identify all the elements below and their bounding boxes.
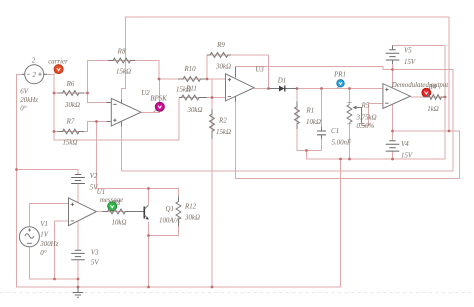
probe carrier <box>48 58 68 73</box>
svg-text:PR1: PR1 <box>333 71 346 78</box>
svg-text:15V: 15V <box>401 153 413 160</box>
svg-text:3.75kΩ: 3.75kΩ <box>356 115 377 122</box>
svg-text:D1: D1 <box>277 77 286 84</box>
probe PR1 <box>333 71 346 88</box>
svg-text:R11: R11 <box>185 85 197 92</box>
svg-text:R5: R5 <box>361 103 370 110</box>
svg-text:V1: V1 <box>40 221 48 228</box>
svg-text:15kΩ: 15kΩ <box>116 69 131 76</box>
svg-text:R6: R6 <box>66 81 75 88</box>
resistor R3 <box>103 200 131 227</box>
wire R7 row <box>54 122 111 132</box>
svg-text:V3: V3 <box>91 249 99 256</box>
wire R6 to U2 inverting input <box>88 93 112 103</box>
wire pot top lead <box>349 89 351 105</box>
svg-text:30kΩ: 30kΩ <box>187 107 203 114</box>
wire comparator output row <box>411 96 446 98</box>
svg-text:V4: V4 <box>401 141 409 148</box>
svg-text:0°: 0° <box>40 250 46 257</box>
svg-text:R12: R12 <box>184 203 197 210</box>
svg-text:1kΩ: 1kΩ <box>427 106 439 113</box>
potentiometer R5 <box>347 103 377 130</box>
resistor R1 <box>295 102 321 130</box>
wire U1 output row to Q1 base <box>97 211 140 213</box>
wire top rail right corner down <box>448 17 450 131</box>
resistor R8 <box>108 49 135 76</box>
wire minus15 row V4 to right margin <box>236 97 460 179</box>
wire R8 feedback <box>88 61 160 94</box>
wire U1 minus to lower rail <box>55 221 69 279</box>
AC source carrier <box>20 58 47 113</box>
page border dashed bottom <box>0 292 474 294</box>
wire carrier node vertical <box>44 75 179 141</box>
svg-text:carrier: carrier <box>48 58 68 65</box>
wire V5 top lead to right margin <box>393 46 446 160</box>
svg-text:R2: R2 <box>218 117 227 124</box>
op-amp U1 <box>69 189 106 226</box>
probe BPSK <box>150 96 167 113</box>
resistor R7 <box>58 118 85 146</box>
wire V1 bottom to lower rail <box>30 247 79 279</box>
svg-text:2: 2 <box>32 58 36 65</box>
wire U1 bottom pin to V3 <box>77 222 79 251</box>
svg-text:0°: 0° <box>20 105 26 112</box>
wire R11 row to U3 minus <box>179 97 226 99</box>
svg-text:V5: V5 <box>404 47 412 54</box>
resistor R11 <box>179 85 207 113</box>
probe Demodulated output <box>391 82 450 97</box>
battery V2 <box>71 173 98 191</box>
transistor Q1 <box>130 205 180 224</box>
capacitor C1 <box>317 127 352 147</box>
resistor R9 <box>207 42 231 70</box>
svg-text:V2: V2 <box>90 173 98 180</box>
wire common rail to V2 top <box>17 170 79 175</box>
svg-text:U3: U3 <box>255 66 264 73</box>
wire U2 output to feedback node <box>141 79 212 113</box>
resistor R12 <box>176 197 200 227</box>
svg-text:C1: C1 <box>331 128 339 135</box>
svg-text:20kHz: 20kHz <box>20 97 38 104</box>
wire U3 plus input <box>207 78 226 80</box>
resistor R10 <box>176 66 205 93</box>
op-amp comparator U4 <box>383 84 410 109</box>
svg-text:15V: 15V <box>404 59 416 66</box>
svg-text:5.00nF: 5.00nF <box>332 139 353 146</box>
svg-text:0.50%: 0.50% <box>357 123 375 130</box>
wire R2 down to ground rail <box>211 98 213 288</box>
svg-text:R8: R8 <box>117 49 126 56</box>
svg-text:R3: R3 <box>112 200 121 207</box>
wire left border net (carrier minus / common) <box>17 75 341 288</box>
wire pot bottom lead <box>349 123 351 160</box>
svg-text:R7: R7 <box>66 118 75 125</box>
wire U3 output main row <box>254 88 383 90</box>
battery V4 <box>386 141 413 160</box>
svg-text:10kΩ: 10kΩ <box>112 220 127 227</box>
svg-text:100A/A: 100A/A <box>159 217 180 224</box>
svg-text:30kΩ: 30kΩ <box>215 63 231 70</box>
wire R1 branch <box>297 89 322 151</box>
wire V1 plus to U1 plus <box>30 204 69 228</box>
svg-text:5V: 5V <box>90 184 98 191</box>
wire U2 top supply from top rail <box>122 17 450 103</box>
wire R9 feedback <box>207 55 269 89</box>
svg-text:R10: R10 <box>183 66 196 73</box>
resistor R2 <box>210 109 231 139</box>
svg-text:30kΩ: 30kΩ <box>64 102 80 109</box>
svg-text:300Hz: 300Hz <box>39 241 58 248</box>
svg-text:5V: 5V <box>91 260 99 267</box>
svg-text:Demodulated output: Demodulated output <box>391 82 450 89</box>
svg-text:30kΩ: 30kΩ <box>184 215 200 222</box>
wire pot wiper to comparator minus <box>362 104 384 126</box>
wire node plus to Q1 collector rail <box>97 122 179 202</box>
svg-text:R9: R9 <box>216 42 225 49</box>
svg-text:1V: 1V <box>40 232 48 239</box>
wire R10-R11 tie <box>211 79 213 98</box>
resistor R4 1k load <box>424 95 444 113</box>
wire comparator V+ to V5 <box>392 60 394 88</box>
wire plus15 row U3 to V5 <box>122 67 454 172</box>
op-amp U2 <box>107 90 151 127</box>
wire comparator Vminus to V4 <box>392 105 394 160</box>
svg-text:15kΩ: 15kΩ <box>63 139 78 146</box>
op-amp U3 <box>226 66 265 101</box>
wire R6 row <box>54 92 88 94</box>
svg-text:R1: R1 <box>306 107 315 114</box>
wire V3 bottom to ground <box>77 260 79 288</box>
resistor R6 <box>58 81 85 109</box>
wire ground rail drop to bottom rail <box>340 159 342 287</box>
svg-text:2: 2 <box>32 72 36 79</box>
wire C1 branch <box>321 89 323 151</box>
wire Q1 emitter down and R12 bottom <box>149 222 179 288</box>
svg-text:BPSK: BPSK <box>150 96 167 103</box>
svg-text:6V: 6V <box>20 88 28 95</box>
svg-text:15kΩ: 15kΩ <box>216 129 231 136</box>
svg-text:R4: R4 <box>428 84 437 91</box>
svg-text:U2: U2 <box>141 90 150 97</box>
wire R1C1 node drop to ground rail <box>307 151 446 160</box>
svg-text:U1: U1 <box>97 189 105 196</box>
battery V3 <box>71 249 99 266</box>
wire Q1 collector vertical <box>148 189 150 205</box>
wire U2 bottom pin to plus15 rail <box>121 122 123 171</box>
battery V5 <box>386 46 416 67</box>
svg-text:Q1: Q1 <box>166 206 174 213</box>
ground <box>73 287 84 297</box>
svg-text:10kΩ: 10kΩ <box>306 119 321 126</box>
wire U1 top pin to V2 <box>77 184 79 203</box>
diode D1 <box>269 77 298 91</box>
AC source V1 <box>19 221 58 257</box>
probe message <box>100 197 123 211</box>
